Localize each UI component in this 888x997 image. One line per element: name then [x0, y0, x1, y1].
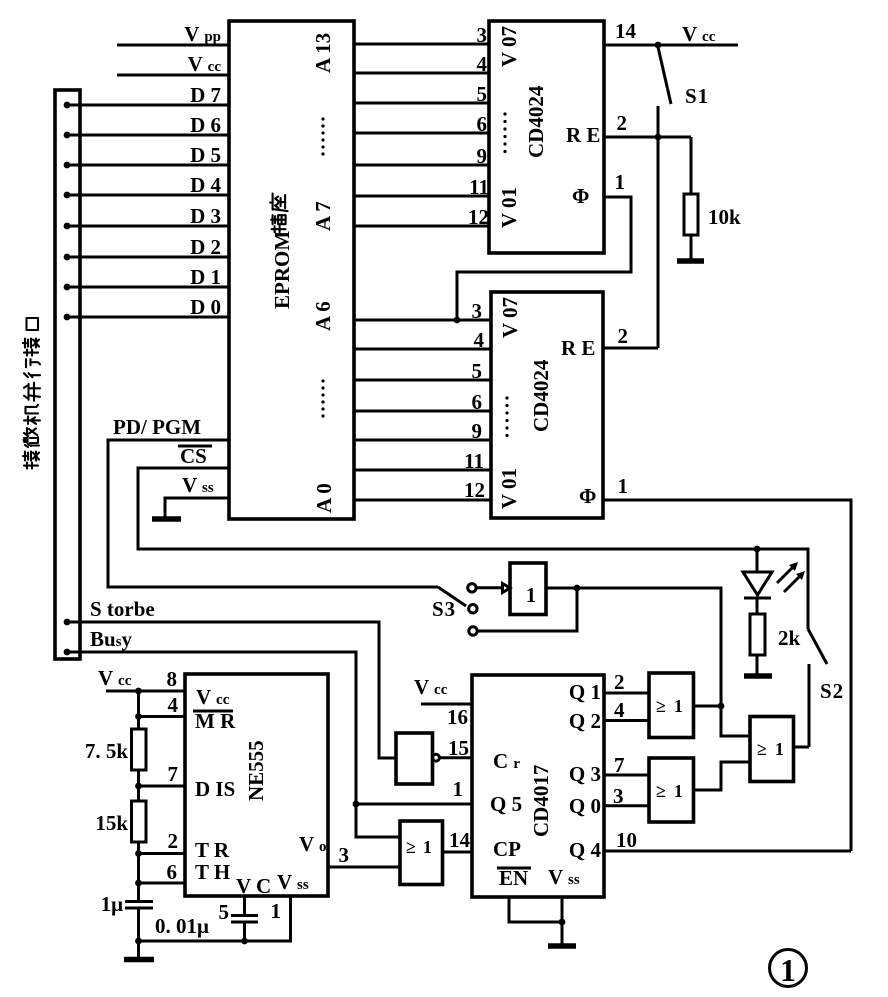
U3 pin 2 RE wire — [603, 347, 658, 350]
wire Q5 pin1 — [356, 803, 472, 806]
capacitor C2 0.01u plate top — [231, 914, 258, 917]
gate G6 box — [750, 717, 794, 782]
wire Vpp — [117, 44, 229, 47]
connector J1 parallel port — [55, 90, 80, 659]
node EN Vss — [559, 919, 566, 926]
node pin4 — [135, 713, 142, 720]
node pin2 — [135, 850, 142, 857]
svg-text:Busy: Busy — [90, 627, 133, 651]
node C2 ground — [241, 938, 248, 945]
gate G1 box — [510, 563, 546, 615]
resistor R3 7.5k — [132, 729, 147, 770]
svg-text:1: 1 — [615, 170, 626, 194]
svg-text:12: 12 — [468, 205, 489, 229]
svg-text:V 01: V 01 — [497, 187, 521, 228]
svg-text:8: 8 — [167, 667, 178, 691]
svg-text:1μ: 1μ — [101, 892, 124, 916]
svg-text:D 7: D 7 — [190, 83, 221, 107]
label CS overline — [178, 444, 212, 468]
svg-text:R E: R E — [566, 123, 600, 147]
svg-text:6: 6 — [167, 860, 178, 884]
wire S3 to gate — [477, 586, 505, 589]
U3 dotted pins — [505, 396, 508, 437]
node Busy Q5 junction — [353, 801, 360, 808]
capacitor C1 1u plate top — [125, 900, 153, 903]
svg-text:2: 2 — [614, 670, 625, 694]
U5 pin 3 wire Q0 — [604, 804, 649, 807]
svg-text:A 0: A 0 — [312, 483, 336, 513]
node RE junction — [655, 134, 662, 141]
U4 pin 5 lead — [243, 896, 246, 916]
node pin7 — [135, 783, 142, 790]
wire G4 to G6 input — [721, 706, 750, 736]
svg-text:D 1: D 1 — [190, 265, 221, 289]
svg-text:15: 15 — [448, 736, 469, 760]
svg-text:1: 1 — [780, 952, 796, 988]
svg-text:Q 2: Q 2 — [569, 709, 601, 733]
svg-text:V pp: V pp — [184, 22, 221, 46]
svg-text:3: 3 — [613, 784, 624, 808]
gate G4 box — [649, 673, 694, 738]
svg-text:V 01: V 01 — [497, 468, 521, 509]
U5 pin 4 wire Q2 — [604, 719, 649, 722]
gate G1 output wire — [546, 588, 721, 706]
wire A13 to pin3 — [354, 43, 489, 46]
wire D0 — [67, 316, 229, 319]
gate G1 input triangle — [503, 584, 511, 593]
svg-text:6: 6 — [477, 112, 488, 136]
svg-text:V cc: V cc — [196, 685, 230, 709]
U2 dotted pins — [503, 112, 506, 153]
U4 pin 7 wire — [139, 785, 186, 788]
svg-text:≥1: ≥1 — [656, 781, 683, 801]
gate G5 box — [649, 758, 694, 822]
svg-text:14: 14 — [449, 828, 471, 852]
node on U3 pin3 wire — [454, 317, 461, 324]
LED D1 cathode bar — [744, 597, 771, 600]
svg-text:Q 0: Q 0 — [569, 794, 601, 818]
gate G2 box — [400, 821, 443, 885]
gate G4 output wire — [694, 705, 722, 708]
svg-text:≥1: ≥1 — [656, 696, 683, 716]
gate G6 output wire to S2 — [794, 746, 810, 749]
U3 pin 1 wire to feedback — [603, 500, 851, 851]
ground below R2 — [744, 673, 772, 679]
U2 pin 2 RE wire — [604, 136, 691, 139]
node G4 output — [718, 703, 725, 710]
svg-text:CS: CS — [180, 444, 207, 468]
U2 pin 14 wire to Vcc — [604, 44, 738, 47]
figure number circle — [770, 950, 807, 987]
wire D5 — [67, 164, 229, 167]
svg-text:D 5: D 5 — [190, 143, 221, 167]
wire to pin5 lower — [354, 379, 491, 382]
svg-text:5: 5 — [477, 82, 488, 106]
svg-text:S3: S3 — [432, 597, 456, 621]
svg-text:EPROM: EPROM — [270, 231, 294, 309]
LED arrow 1 — [777, 562, 798, 583]
wire D7 — [67, 104, 229, 107]
U4 label MR inside with overline — [193, 709, 236, 733]
svg-text:V cc: V cc — [682, 22, 716, 46]
node G1 output — [574, 585, 581, 592]
U5 pin 15 wire — [440, 756, 473, 759]
svg-text:Q 1: Q 1 — [569, 680, 601, 704]
timer U4 NE555 — [185, 674, 328, 896]
node D6 — [64, 132, 71, 139]
svg-text:T H: T H — [195, 860, 230, 884]
wire Vss EPROM — [165, 498, 229, 518]
node pin8 — [135, 688, 142, 695]
svg-text:2: 2 — [618, 324, 629, 348]
node D5 — [64, 162, 71, 169]
wire Busy — [67, 652, 400, 837]
LED cathode lead — [756, 598, 759, 614]
svg-text:1: 1 — [618, 474, 629, 498]
wire to pin9 lower — [354, 439, 491, 442]
wire Vcc down to R3 — [137, 691, 140, 729]
svg-text:4: 4 — [168, 693, 179, 717]
svg-text:15k: 15k — [95, 811, 128, 835]
svg-text:4: 4 — [477, 52, 488, 76]
node S1 top — [655, 42, 662, 49]
svg-text:2: 2 — [168, 829, 179, 853]
svg-text:CD4024: CD4024 — [529, 359, 553, 432]
svg-text:V ss: V ss — [277, 870, 309, 894]
inverter G3 bubble — [433, 754, 440, 761]
svg-text:2k: 2k — [778, 626, 801, 650]
wire Storbe — [67, 622, 397, 758]
node D2 — [64, 254, 71, 261]
svg-text:V cc: V cc — [188, 52, 222, 76]
U5 pin 16 wire — [421, 703, 472, 706]
LED arrow 2 — [784, 571, 805, 592]
ground stem C1 — [137, 941, 140, 959]
capacitor C2 plate bottom — [231, 921, 258, 924]
wire D2 — [67, 256, 229, 259]
gate G2 output wire to CP — [443, 851, 473, 854]
ground rail wire — [139, 896, 291, 941]
svg-text:NE555: NE555 — [244, 740, 268, 801]
U5 pin 10 wire Q4 feedback — [604, 850, 851, 853]
node D1 — [64, 284, 71, 291]
node D0 — [64, 314, 71, 321]
switch S1 blade — [658, 47, 671, 104]
LED D1 triangle — [743, 572, 772, 595]
wire to pin4 — [354, 72, 489, 75]
wire S1 to U3 RE — [657, 137, 660, 348]
svg-text:D IS: D IS — [195, 777, 235, 801]
svg-text:CD4024: CD4024 — [524, 85, 548, 158]
svg-text:3: 3 — [477, 23, 488, 47]
U5 EN pin wire — [509, 897, 562, 922]
svg-text:Q 5: Q 5 — [490, 792, 522, 816]
svg-text:1: 1 — [526, 583, 537, 607]
wire to pin4 lower — [354, 348, 491, 351]
svg-text:V ss: V ss — [548, 865, 580, 889]
wire CS line to S2 — [757, 549, 808, 629]
wire A6 to pin3 lower — [354, 319, 491, 322]
wire to pin12 lower — [354, 499, 491, 502]
svg-text:M R: M R — [195, 709, 236, 733]
svg-text:D 0: D 0 — [190, 295, 221, 319]
wire to pin6 lower — [354, 410, 491, 413]
inverter G3 box — [396, 733, 433, 784]
svg-text:7: 7 — [614, 753, 625, 777]
svg-text:Q 4: Q 4 — [569, 838, 602, 862]
svg-text:V ss: V ss — [182, 473, 214, 497]
S3 contact middle — [469, 605, 477, 613]
wire to pin6 — [354, 132, 489, 135]
ground below U5 — [548, 943, 576, 949]
U5 Vss pin wire — [561, 897, 564, 945]
counter U2 CD4024 (top) — [489, 21, 604, 253]
gate G5 output wire — [694, 762, 751, 790]
C2 lead bottom — [243, 922, 246, 941]
U2 pin 1 wire — [457, 197, 631, 320]
svg-text:V cc: V cc — [414, 675, 448, 699]
svg-text:A 6: A 6 — [311, 301, 335, 331]
dotted pins lower — [321, 379, 324, 417]
ground EPROM Vss — [152, 516, 181, 522]
svg-text:T R: T R — [195, 838, 230, 862]
U5 label EN inside with overline — [497, 866, 531, 890]
svg-text:Φ: Φ — [572, 184, 589, 208]
wire G1 feedback to S3 lower — [478, 588, 578, 631]
EPROM socket U1 — [229, 21, 354, 519]
node D7 — [64, 102, 71, 109]
svg-text:A 7: A 7 — [311, 201, 335, 231]
U4 pin 3 wire Vo — [328, 866, 400, 869]
node D3 — [64, 223, 71, 230]
node ground rail left — [135, 938, 142, 945]
node Busy — [64, 649, 71, 656]
node D4 — [64, 192, 71, 199]
resistor R1 10k — [684, 194, 698, 235]
svg-text:V o: V o — [299, 832, 327, 856]
svg-text:D 2: D 2 — [190, 235, 221, 259]
svg-text:R E: R E — [561, 336, 595, 360]
wire to pin5 — [354, 102, 489, 105]
svg-text:D 6: D 6 — [190, 113, 221, 137]
svg-text:1: 1 — [453, 777, 464, 801]
svg-text:S1: S1 — [685, 84, 709, 108]
node Storbe — [64, 619, 71, 626]
node LED top — [754, 546, 761, 553]
wire D1 — [67, 286, 229, 289]
svg-text:6: 6 — [472, 390, 483, 414]
switch S2 blade — [808, 629, 827, 664]
svg-text:1: 1 — [271, 899, 282, 923]
svg-text:CD4017: CD4017 — [529, 765, 553, 837]
wire to pin11 — [354, 195, 489, 198]
LED D1 anode lead — [756, 549, 759, 572]
switch S2 contact wire — [808, 664, 811, 747]
label EPROM socket — [270, 194, 294, 309]
svg-text:14: 14 — [615, 19, 637, 43]
svg-text:4: 4 — [614, 698, 625, 722]
svg-text:3: 3 — [472, 299, 483, 323]
U5 pin 7 wire Q3 — [604, 774, 649, 777]
svg-text:V cc: V cc — [98, 666, 132, 690]
svg-text:C r: C r — [493, 749, 520, 773]
wire D4 — [67, 194, 229, 197]
svg-text:≥1: ≥1 — [406, 837, 432, 857]
svg-text:5: 5 — [472, 359, 483, 383]
resistor R2 lead bottom — [756, 655, 759, 675]
svg-text:3: 3 — [339, 843, 350, 867]
wire Vcc — [117, 74, 229, 77]
dotted pins upper — [321, 117, 324, 155]
svg-text:7: 7 — [168, 762, 179, 786]
connector label 接微机并行接口 — [23, 318, 40, 469]
svg-text:PD/ PGM: PD/ PGM — [113, 415, 201, 439]
svg-text:CP: CP — [493, 837, 521, 861]
counter U3 CD4024 (bottom) — [491, 292, 603, 518]
capacitor C1 plate bottom — [125, 907, 153, 910]
svg-text:V C: V C — [236, 874, 271, 898]
svg-text:2: 2 — [617, 111, 628, 135]
svg-text:9: 9 — [477, 144, 488, 168]
svg-text:10k: 10k — [708, 205, 741, 229]
resistor R4 15k — [132, 801, 147, 842]
S3 contact lower — [469, 627, 477, 635]
svg-text:D 4: D 4 — [190, 173, 221, 197]
wire D6 — [67, 134, 229, 137]
svg-text:4: 4 — [474, 328, 485, 352]
wire PD/PGM — [108, 440, 438, 587]
U4 pin 4 wire — [139, 715, 186, 718]
switch S1 contact — [657, 106, 660, 137]
svg-text:11: 11 — [464, 449, 484, 473]
switch S3 blade — [438, 587, 466, 606]
svg-text:0. 01μ: 0. 01μ — [155, 914, 209, 938]
node pin6 — [135, 880, 142, 887]
wire to pin11 lower — [354, 469, 491, 472]
S3 contact upper — [468, 584, 476, 592]
svg-text:12: 12 — [464, 478, 485, 502]
svg-text:≥1: ≥1 — [757, 739, 784, 759]
wire to pin9 — [354, 164, 489, 167]
ground below R1 — [677, 258, 704, 264]
svg-text:Q 3: Q 3 — [569, 762, 601, 786]
svg-text:9: 9 — [472, 419, 483, 443]
svg-text:5: 5 — [219, 900, 230, 924]
svg-text:V 07: V 07 — [498, 297, 522, 338]
U4 pin 6 wire — [139, 882, 186, 885]
ground below C1 — [124, 957, 154, 963]
svg-text:7. 5k: 7. 5k — [85, 739, 129, 763]
svg-text:EN: EN — [499, 866, 528, 890]
U4 pin 8 wire — [106, 690, 185, 693]
wire to pin12 — [354, 225, 489, 228]
svg-text:D 3: D 3 — [190, 204, 221, 228]
counter U5 CD4017 — [472, 675, 604, 897]
U4 pin 2 wire — [139, 852, 186, 855]
svg-text:S torbe: S torbe — [90, 597, 155, 621]
svg-text:10: 10 — [616, 828, 637, 852]
svg-text:11: 11 — [469, 175, 489, 199]
wire D3 — [67, 225, 229, 228]
C1 lead bottom — [137, 908, 140, 941]
resistor R1 lead bottom — [690, 235, 693, 260]
wire CS — [138, 468, 757, 549]
svg-text:S2: S2 — [820, 679, 844, 703]
svg-text:Φ: Φ — [579, 484, 596, 508]
resistor R4 lead bottom — [137, 842, 140, 901]
U5 pin 2 wire Q1 — [604, 692, 649, 695]
resistor R3 lead bottom — [137, 770, 140, 801]
resistor R1 10k lead top — [690, 137, 693, 194]
svg-text:A 13: A 13 — [311, 33, 335, 73]
svg-text:V 07: V 07 — [497, 26, 521, 67]
svg-text:16: 16 — [447, 705, 468, 729]
resistor R2 2k — [750, 614, 765, 655]
